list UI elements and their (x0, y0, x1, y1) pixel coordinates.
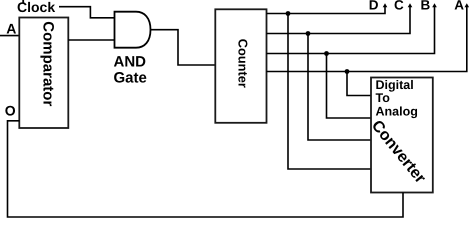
svg-text:D: D (369, 0, 379, 13)
wire DAC output feedback to comparator O input (8, 121, 404, 217)
wire AND gate output to counter input (151, 30, 216, 65)
wire line2 drop to DAC input 2 (308, 34, 371, 141)
label C (394, 0, 404, 13)
arrowhead terminal A (465, 3, 470, 7)
svg-text:Comparator: Comparator (39, 21, 56, 106)
svg-text:Digital: Digital (376, 78, 414, 92)
tick above Clock C (22, 0, 24, 3)
label A (analog input) (6, 20, 16, 36)
wire clock to AND gate input 1 (59, 7, 115, 18)
wire A input to comparator (0, 35, 19, 37)
arrowhead terminal B (432, 3, 437, 7)
label A (bit) (454, 0, 464, 13)
arrowhead terminal D (383, 3, 388, 7)
wire counter output bit D (line 1) (267, 7, 386, 14)
wire line4 drop to DAC input 4 (347, 72, 371, 96)
block Counter (215, 9, 266, 123)
wire counter output bit A (line 4) (267, 7, 467, 72)
svg-text:AND: AND (114, 54, 147, 71)
svg-text:B: B (421, 0, 431, 13)
label B (421, 0, 431, 13)
svg-text:Analog: Analog (376, 104, 418, 118)
wire counter output bit B (line 3) (267, 7, 435, 54)
junction node on line 4 (345, 69, 350, 74)
arrowhead terminal C (408, 3, 413, 7)
block Comparator (19, 18, 68, 129)
wire line3 drop to DAC input 3 (327, 54, 372, 119)
wire counter output bit C (line 2) (267, 7, 411, 34)
svg-text:A: A (454, 0, 464, 13)
label D (369, 0, 379, 13)
wire line1 drop to DAC input 1 (288, 14, 371, 170)
label O (comparator feedback input) (5, 103, 16, 119)
junction node on line 1 (286, 11, 291, 16)
svg-text:Counter: Counter (236, 39, 251, 88)
svg-text:C: C (394, 0, 404, 13)
label Clock (17, 0, 55, 15)
block Digital To Analog Converter (DAC) (368, 78, 433, 193)
wire comparator output to AND gate input 2 (68, 39, 114, 41)
junction node on line 2 (306, 31, 311, 36)
svg-text:To: To (376, 91, 391, 105)
AND gate (115, 12, 151, 48)
svg-text:O: O (5, 103, 16, 119)
svg-text:Gate: Gate (114, 69, 147, 86)
label AND Gate (114, 54, 147, 87)
junction node on line 3 (324, 51, 329, 56)
svg-text:A: A (6, 20, 16, 36)
